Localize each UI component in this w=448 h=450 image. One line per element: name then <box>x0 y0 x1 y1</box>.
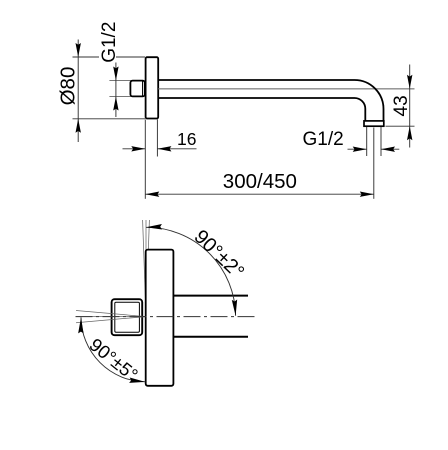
svg-text:90°±2°: 90°±2° <box>190 226 249 284</box>
dim ext line G1/2 nut bottom <box>109 96 132 98</box>
pipe arm top edge <box>158 79 354 81</box>
tolerance line +2deg <box>146 220 149 317</box>
pipe axis gray line, doubles as 43-dim top extension <box>159 88 415 90</box>
svg-text:Ø80: Ø80 <box>56 67 79 106</box>
svg-text:90°±5°: 90°±5° <box>85 334 142 385</box>
dim ext line 16 right <box>156 120 158 157</box>
arc 90deg +-5deg <box>78 317 145 383</box>
dim ext line Ø80 top <box>73 56 146 58</box>
axis thin line left <box>76 316 146 318</box>
nut: wall thread connector <box>130 81 145 97</box>
dim line 43 <box>407 65 412 148</box>
outlet dim ext line left <box>366 127 368 156</box>
dim line G1/2 outlet <box>348 147 400 152</box>
pipe arm bottom edge <box>158 97 354 99</box>
outlet dim ext line right <box>380 127 382 156</box>
pipe bend outer arc <box>355 80 384 121</box>
arc 90deg +-2deg <box>146 224 237 316</box>
pipe bend inner arc <box>355 98 366 121</box>
tolerance line -5deg <box>76 311 146 317</box>
pipe bottom edge (bottom view) <box>173 336 248 338</box>
center line dash-dot <box>76 316 258 318</box>
dim line Ø80 <box>76 40 81 143</box>
tolerance line +5deg <box>76 317 146 323</box>
dim line 16 <box>123 146 197 151</box>
outlet nozzle ring <box>364 121 384 126</box>
svg-text:300/450: 300/450 <box>223 170 297 193</box>
svg-text:16: 16 <box>177 129 196 149</box>
svg-text:G1/2: G1/2 <box>99 22 120 63</box>
label G1/2 wall thread <box>99 22 120 63</box>
dim ext line G1/2 nut top <box>109 80 132 82</box>
dim ext line 43 bottom <box>386 125 415 127</box>
wall flange disc (side view) <box>146 57 159 118</box>
tolerance line -2deg <box>143 220 146 317</box>
flange disc (bottom view) <box>146 250 174 386</box>
svg-text:43: 43 <box>391 95 412 116</box>
dim ext line Ø80 bottom <box>73 118 146 120</box>
svg-text:G1/2: G1/2 <box>303 129 344 150</box>
dim line 300/450 <box>145 192 373 197</box>
dim ext line 16 left shared with 300/450 <box>144 120 146 199</box>
nut (bottom view) <box>112 299 143 335</box>
outlet center line <box>373 128 375 199</box>
dim line G1/2 wall thread <box>113 63 118 118</box>
wall plane vertical thin line <box>145 220 147 317</box>
pipe top edge (bottom view) <box>173 295 248 297</box>
